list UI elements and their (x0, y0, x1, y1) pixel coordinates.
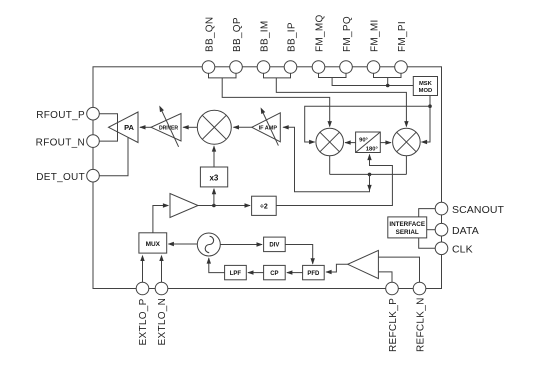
pin CLK (435, 242, 473, 256)
svg-text:INTERFACE: INTERFACE (389, 221, 425, 228)
svg-text:EXTLO_N: EXTLO_N (157, 298, 168, 346)
pin DATA (435, 223, 479, 237)
MSK MOD block (413, 77, 437, 96)
wire LO node up to x3 (212, 188, 216, 206)
svg-text:MUX: MUX (146, 241, 161, 248)
svg-text:x3: x3 (209, 173, 218, 182)
wire SCANOUT to interface (419, 209, 436, 217)
divider /2 block (252, 196, 277, 215)
svg-text:PFD: PFD (307, 271, 320, 277)
wire CLK to interface (419, 238, 436, 248)
mixer M1 (197, 110, 231, 144)
phase shifter 90/180 (356, 132, 381, 153)
junction sum line (368, 173, 372, 177)
wire MSK branch to mixer M2 left input (305, 106, 430, 144)
svg-text:MOD: MOD (419, 88, 433, 94)
wire IF AMP output to mixer M1 (233, 125, 252, 129)
svg-text:FM_PI: FM_PI (397, 21, 408, 52)
wire MUX output to LO buffer (153, 203, 169, 233)
op-amp DRIVER variable gain (151, 105, 181, 147)
CP block (264, 265, 286, 279)
svg-text:DATA: DATA (452, 225, 479, 237)
pin FM_MQ (312, 14, 325, 73)
svg-text:BB_IP: BB_IP (287, 22, 298, 52)
wire FM_MQ FM_PQ bus to MSK MOD (319, 73, 414, 85)
pin REFCLK_P (386, 282, 399, 352)
wire LO node right to divide-by-2 (214, 203, 251, 207)
wire DATA to interface (427, 229, 436, 231)
wire RFOUT differential loop from PA (99, 114, 117, 141)
svg-text:SERIAL: SERIAL (396, 229, 419, 236)
svg-text:BB_QP: BB_QP (232, 17, 243, 52)
pin FM_PI (395, 21, 408, 73)
svg-text:MSK: MSK (419, 81, 433, 87)
chip boundary box (93, 67, 442, 289)
op-amp IF AMP variable gain (252, 106, 280, 145)
svg-text:BB_QN: BB_QN (205, 17, 216, 52)
LPF block (225, 265, 247, 279)
svg-text:FM_MQ: FM_MQ (315, 14, 326, 52)
svg-text:FM_PQ: FM_PQ (342, 16, 353, 52)
svg-text:LPF: LPF (230, 271, 242, 277)
wire FM_MI FM_PI bus joining MSK MOD line (374, 73, 402, 85)
wire REFCLK buffer output to PFD (325, 264, 347, 274)
wire LPF to VCO bottom (207, 257, 225, 272)
oscillator VCO (197, 233, 220, 256)
svg-text:REFCLK_N: REFCLK_N (416, 297, 427, 352)
wire PFD to CP (286, 270, 303, 274)
wire phase shifter 90deg output to mixer M3 (380, 140, 391, 144)
svg-text:÷2: ÷2 (260, 204, 268, 211)
pin FM_PQ (340, 16, 353, 73)
svg-text:SCANOUT: SCANOUT (452, 204, 505, 216)
wire mixer sum line (330, 156, 407, 175)
op-amp LO buffer (170, 194, 198, 218)
pin BB_IP (284, 22, 297, 73)
DIV block (264, 237, 286, 252)
INTERFACE SERIAL block (388, 217, 427, 238)
wire BB_IM BB_IP bus to mixer M3 top (264, 73, 409, 127)
wire EXTLO_N to MUX (159, 255, 163, 283)
wire VCO output to MUX (168, 242, 198, 246)
pin BB_QP (230, 17, 243, 73)
svg-text:IF AMP: IF AMP (259, 126, 278, 132)
svg-text:CLK: CLK (452, 244, 473, 256)
svg-text:REFCLK_P: REFCLK_P (388, 298, 399, 352)
op-amp REFCLK buffer (348, 250, 379, 278)
svg-text:RFOUT_P: RFOUT_P (36, 110, 85, 121)
pin REFCLK_N (413, 282, 426, 352)
wire sum down and left up to IF AMP input (282, 125, 371, 192)
wire DET_OUT to PA bottom edge (99, 137, 128, 175)
pin RFOUT_P (36, 107, 99, 121)
pin BB_QN (202, 17, 215, 74)
wire CP to LPF (247, 270, 263, 274)
junction FM bus (386, 84, 390, 88)
mixer M3 (393, 128, 421, 156)
MUX block (139, 233, 167, 253)
svg-text:RFOUT_N: RFOUT_N (36, 137, 85, 148)
svg-text:FM_MI: FM_MI (370, 19, 381, 52)
wire BB_QN BB_QP bus to mixer M2 top (209, 73, 332, 127)
PFD block (303, 265, 325, 279)
svg-text:EXTLO_P: EXTLO_P (138, 298, 149, 345)
pin FM_MI (367, 19, 380, 73)
wire LO buffer output node (198, 205, 214, 207)
wire x3 output to mixer M1 bottom (212, 145, 216, 167)
wire REFCLK_P to buffer lower input (378, 272, 392, 282)
junction LO node (212, 204, 216, 208)
svg-text:PA: PA (124, 123, 134, 132)
svg-text:CP: CP (270, 271, 278, 277)
wire phase shifter 0deg output to mixer M2 (344, 140, 355, 144)
wire VCO to DIV (220, 242, 262, 246)
svg-text:DET_OUT: DET_OUT (36, 172, 85, 183)
pin DET_OUT (36, 169, 99, 183)
svg-text:BB_IM: BB_IM (260, 20, 271, 52)
wire REFCLK_N to buffer upper input (378, 257, 419, 282)
pin RFOUT_N (36, 135, 100, 149)
multiplier x3 block (200, 167, 227, 187)
wire mixer M1 output to DRIVER (182, 125, 197, 129)
pin BB_IM (257, 20, 270, 73)
mixer M2 (316, 128, 344, 156)
svg-text:180°: 180° (366, 147, 379, 153)
wire divide-by-2 output up to phase shifter (276, 154, 392, 206)
wire DIV to PFD (285, 245, 315, 265)
pin SCANOUT (435, 202, 504, 216)
pin EXTLO_N (155, 282, 168, 345)
pin EXTLO_P (136, 282, 149, 345)
junction MSK branch (428, 104, 432, 108)
svg-text:90°: 90° (359, 138, 368, 144)
svg-text:DIV: DIV (269, 243, 279, 249)
wire DRIVER output to PA (139, 125, 151, 129)
wire EXTLO_P to MUX (140, 255, 144, 283)
op-amp PA (109, 112, 139, 143)
wire MSK MOD output down with branch (421, 96, 430, 145)
